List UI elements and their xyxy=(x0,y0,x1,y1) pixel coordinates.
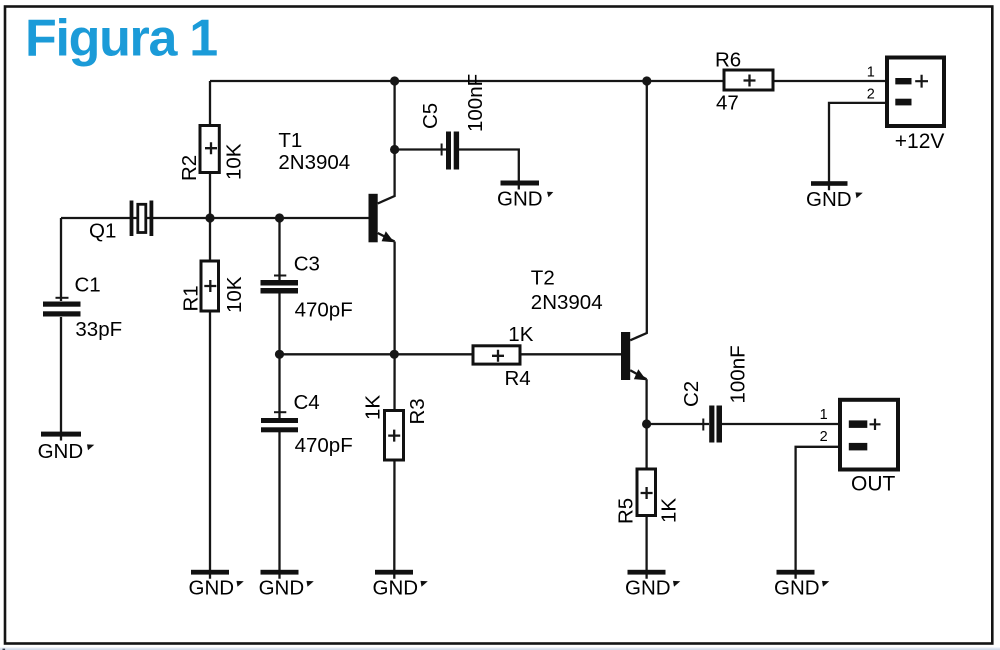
resistor R5 xyxy=(637,469,656,516)
transistor T2 xyxy=(621,332,647,380)
wire T1 emitter to R3 to ground xyxy=(393,242,396,579)
wire T2 collector to top bus xyxy=(630,81,647,340)
wire base bus left xyxy=(61,217,369,219)
svg-text:1K: 1K xyxy=(508,323,533,346)
svg-text:100nF: 100nF xyxy=(727,345,750,403)
ground of R5 xyxy=(625,570,680,600)
svg-text:R2: R2 xyxy=(178,155,201,181)
svg-text:10K: 10K xyxy=(223,276,246,313)
capacitor C3 xyxy=(261,276,299,294)
ground of C5 xyxy=(497,181,553,211)
connector OUT xyxy=(840,400,898,470)
svg-text:R1: R1 xyxy=(180,285,203,311)
svg-text:100nF: 100nF xyxy=(464,74,487,132)
node junction top bus T2 xyxy=(642,76,651,85)
svg-text:2N3904: 2N3904 xyxy=(531,291,603,314)
svg-text:2: 2 xyxy=(867,87,875,103)
ground of +12V xyxy=(806,181,863,211)
svg-text:GND: GND xyxy=(38,440,84,463)
svg-text:GND: GND xyxy=(497,188,543,211)
capacitor C4 xyxy=(261,412,298,432)
svg-text:R6: R6 xyxy=(715,48,741,71)
svg-text:R5: R5 xyxy=(615,498,638,524)
wire C2 branch xyxy=(647,423,840,425)
wire C5 branch xyxy=(395,150,519,190)
svg-text:T1: T1 xyxy=(278,129,302,152)
ground of C4 xyxy=(259,570,314,600)
crystal Q1 xyxy=(130,201,154,237)
svg-text:OUT: OUT xyxy=(851,473,896,496)
node junction R2 R1 xyxy=(205,213,214,222)
wire OUT pin2 to ground xyxy=(796,447,840,579)
capacitor C2 xyxy=(703,406,722,443)
wire T1 collector to top bus xyxy=(378,81,395,204)
wire T2 base bus xyxy=(280,353,622,355)
connector +12V xyxy=(887,58,944,127)
ground of R1 xyxy=(189,570,244,600)
node junction C5 tap xyxy=(390,145,399,154)
svg-text:C2: C2 xyxy=(680,381,703,407)
svg-text:2: 2 xyxy=(820,429,828,445)
node junction T2 emitter C2 xyxy=(642,419,651,428)
svg-text:470pF: 470pF xyxy=(295,434,353,457)
svg-text:33pF: 33pF xyxy=(75,318,122,341)
wire T2 emitter to R5 to ground xyxy=(645,379,647,579)
resistor R1 xyxy=(201,261,219,311)
capacitor C1 xyxy=(43,298,81,317)
wire C3 C4 branch xyxy=(278,218,280,579)
resistor R6 xyxy=(724,70,773,90)
svg-text:Q1: Q1 xyxy=(89,220,116,243)
svg-text:T2: T2 xyxy=(531,267,555,290)
svg-text:C5: C5 xyxy=(419,103,442,129)
svg-text:GND: GND xyxy=(625,577,671,600)
ground of R3 xyxy=(373,570,428,600)
node junction top bus T1 xyxy=(390,76,399,85)
wire R2 R1 vertical xyxy=(209,81,211,579)
svg-text:Figura 1: Figura 1 xyxy=(25,10,217,68)
node junction T1 emitter R3 xyxy=(390,350,399,359)
svg-text:GND: GND xyxy=(806,188,852,211)
svg-text:+12V: +12V xyxy=(895,130,945,153)
svg-text:1: 1 xyxy=(820,407,828,423)
svg-text:10K: 10K xyxy=(223,143,246,180)
wire C1 branch xyxy=(60,218,62,441)
ground of C1 xyxy=(38,432,95,463)
transistor T1 xyxy=(369,194,395,243)
svg-text:GND: GND xyxy=(189,577,235,600)
capacitor C5 xyxy=(442,132,460,170)
svg-text:R4: R4 xyxy=(505,367,531,390)
resistor R2 xyxy=(200,126,219,173)
svg-text:C4: C4 xyxy=(294,391,320,414)
node junction C3 C4 xyxy=(275,350,284,359)
svg-text:GND: GND xyxy=(259,577,305,600)
svg-text:GND: GND xyxy=(373,577,419,600)
wire 12V pin2 to ground xyxy=(829,103,886,190)
svg-text:GND: GND xyxy=(774,577,820,600)
svg-text:1: 1 xyxy=(867,65,875,81)
svg-text:470pF: 470pF xyxy=(295,298,353,321)
svg-text:1K: 1K xyxy=(658,498,681,523)
svg-text:R3: R3 xyxy=(406,398,429,424)
node junction C3 top xyxy=(275,213,284,222)
svg-text:C3: C3 xyxy=(294,253,320,276)
wire V+ top bus xyxy=(210,80,886,82)
resistor R3 xyxy=(385,411,404,461)
ground of OUT xyxy=(774,570,829,600)
svg-text:C1: C1 xyxy=(75,273,101,296)
resistor R4 xyxy=(473,346,520,364)
svg-text:47: 47 xyxy=(716,92,739,115)
svg-text:1K: 1K xyxy=(362,395,385,420)
svg-text:2N3904: 2N3904 xyxy=(278,151,350,174)
